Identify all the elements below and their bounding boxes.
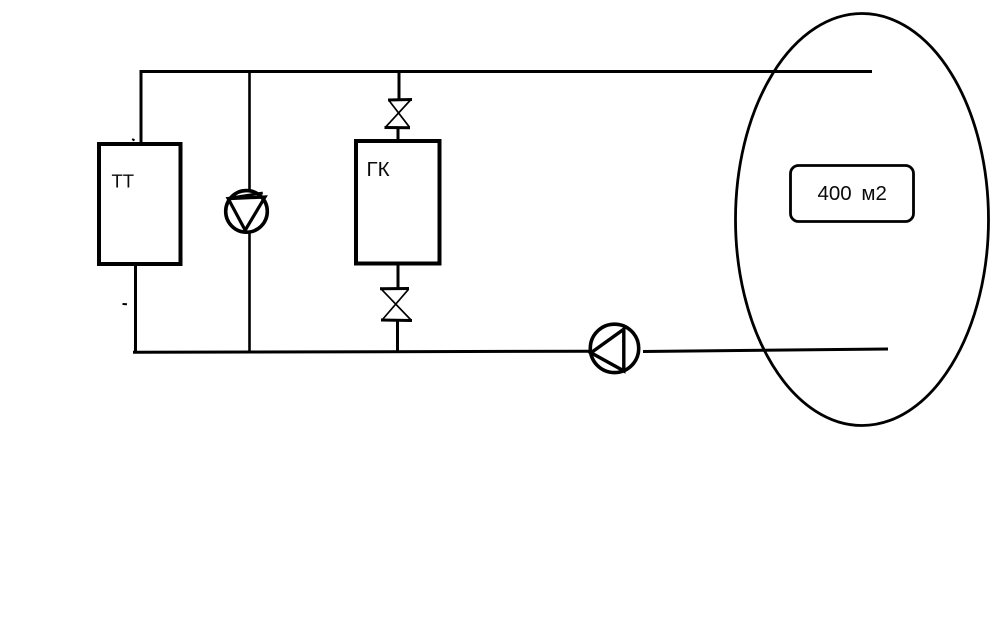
pump P2 (circulation pump on return, triangle left) — [590, 324, 638, 372]
svg-text:ГК: ГК — [367, 158, 390, 181]
boiler TT — [99, 144, 181, 264]
wire: bottom return line (right segment) — [643, 349, 888, 352]
wire: ГК bottom to V2 — [397, 264, 400, 290]
valve V2 (shut-off valve below ГК) — [380, 289, 412, 321]
heat exchanger ГК — [356, 141, 440, 264]
wire: V2 down to return line — [396, 321, 399, 352]
wire: V1 to ГК top — [397, 128, 400, 141]
wire: TT bottom drop — [134, 264, 137, 353]
svg-text:ТТ: ТТ — [112, 171, 135, 192]
wire: pump P1 branch upper — [248, 70, 251, 191]
load box 400 м2 — [791, 166, 914, 222]
svg-text:400 м2: 400 м2 — [818, 182, 887, 205]
consumer zone ellipse — [736, 14, 989, 426]
stray tick above TT — [132, 139, 134, 141]
valve V1 (shut-off valve above ГК) — [385, 100, 413, 128]
wire: top supply line — [140, 70, 873, 73]
pump P1 (circulation pump, triangle down) — [226, 191, 268, 233]
stray pen mark — [123, 303, 128, 305]
wire: drop from supply to TT top — [140, 70, 143, 144]
wire: bottom return line (left segment) — [133, 351, 589, 352]
wire: pump P1 branch lower — [248, 232, 251, 352]
wire: valve branch from supply down to V1 — [398, 70, 401, 100]
